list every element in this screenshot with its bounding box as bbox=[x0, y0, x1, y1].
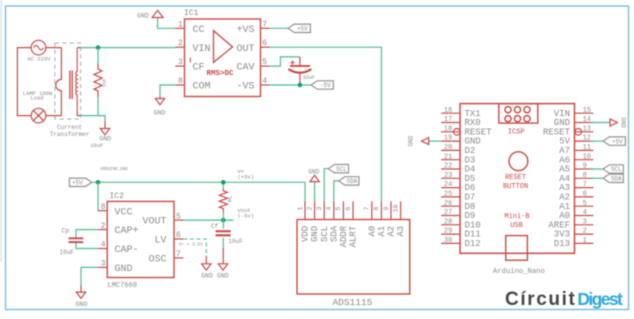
svg-text:AC 220V: AC 220V bbox=[27, 56, 51, 63]
wire + net flag SDA (nano A4) bbox=[590, 177, 603, 179]
svg-text:A3: A3 bbox=[396, 226, 406, 237]
wire + supply flag +5V (nano 5V) bbox=[590, 140, 603, 142]
svg-text:GND: GND bbox=[217, 273, 229, 280]
inversion bubble pin13 RESET bbox=[575, 129, 582, 136]
svg-text:IC2: IC2 bbox=[110, 192, 125, 201]
ADS1115 pin 3 SCL bbox=[323, 201, 325, 219]
svg-text:3: 3 bbox=[583, 218, 587, 226]
svg-text:VIN: VIN bbox=[193, 44, 211, 55]
nano pin 8 A4 bbox=[575, 177, 594, 179]
svg-text:9: 9 bbox=[583, 163, 587, 171]
ADC U2: ADS1115 bbox=[297, 220, 410, 309]
ground (Cf) bbox=[218, 264, 227, 270]
ground arrow (nano pin19 GND, left) bbox=[408, 135, 442, 146]
svg-text:5: 5 bbox=[335, 206, 342, 210]
svg-text:+5V: +5V bbox=[612, 138, 623, 145]
svg-text:SCL: SCL bbox=[611, 166, 622, 173]
svg-text:10: 10 bbox=[392, 205, 399, 213]
svg-text:Current: Current bbox=[57, 124, 82, 131]
svg-text:23: 23 bbox=[444, 172, 452, 180]
junction: secondary/resistor/VIN bbox=[96, 45, 101, 50]
svg-text:6: 6 bbox=[176, 231, 181, 240]
nano pin 30 D12 bbox=[441, 242, 460, 244]
svg-text:RL: RL bbox=[227, 195, 234, 202]
IC2 pin 8 VCC bbox=[98, 210, 107, 212]
svg-text:7: 7 bbox=[176, 250, 181, 259]
svg-text:CírcuitDigest: CírcuitDigest bbox=[505, 289, 623, 310]
svg-text:3: 3 bbox=[178, 58, 183, 67]
junction V+ / RL bbox=[221, 180, 226, 185]
lamp LAMP 100W load bbox=[23, 90, 53, 123]
IC1 pin 3 CF bbox=[175, 65, 184, 67]
svg-text:19: 19 bbox=[444, 135, 452, 143]
svg-text:2: 2 bbox=[101, 222, 106, 231]
svg-text:D13: D13 bbox=[554, 239, 570, 249]
wire: secondary bottom bbox=[81, 116, 105, 121]
svg-text:8: 8 bbox=[178, 77, 183, 86]
dashed wire: IC2 LV to ground bbox=[183, 239, 206, 256]
current transformer bbox=[50, 43, 90, 138]
svg-text:CAV: CAV bbox=[236, 63, 254, 74]
svg-text:OSC: OSC bbox=[148, 255, 166, 266]
nano pin 11 A7 bbox=[575, 149, 594, 151]
svg-text:CAP+: CAP+ bbox=[115, 226, 139, 237]
svg-text:6: 6 bbox=[345, 206, 352, 210]
IC2 pin 6 LV bbox=[174, 238, 183, 240]
svg-text:4: 4 bbox=[583, 209, 587, 217]
svg-text:OUT: OUT bbox=[236, 44, 254, 55]
svg-text:20: 20 bbox=[444, 144, 452, 152]
nano pin 2 3V3 bbox=[575, 233, 594, 235]
svg-text:VCC: VCC bbox=[115, 207, 133, 218]
svg-text:-VS: -VS bbox=[236, 82, 254, 93]
nano pin 1 D13 bbox=[575, 242, 594, 244]
wire + net flag SDA (ADS1115) bbox=[334, 181, 339, 201]
reset button bbox=[503, 152, 528, 191]
svg-text:4: 4 bbox=[326, 206, 333, 210]
nano pin 5 A1 bbox=[575, 205, 594, 207]
svg-text:2: 2 bbox=[583, 228, 587, 236]
svg-text:5: 5 bbox=[583, 200, 587, 208]
wire + net flag SCL (ADS1115) bbox=[324, 169, 328, 202]
resistor 150 (burden) bbox=[94, 48, 107, 116]
svg-text:CF: CF bbox=[193, 63, 205, 74]
svg-text:COM: COM bbox=[193, 82, 211, 93]
ground (LV) bbox=[202, 264, 211, 270]
svg-text:ADDR: ADDR bbox=[339, 225, 349, 247]
svg-text:9: 9 bbox=[383, 206, 390, 210]
svg-text:7: 7 bbox=[583, 181, 587, 189]
svg-text:10uF: 10uF bbox=[228, 238, 243, 245]
AC source AC 220V bbox=[27, 40, 51, 62]
svg-text:1: 1 bbox=[583, 237, 587, 245]
svg-text:A0: A0 bbox=[367, 226, 377, 237]
svg-text:5: 5 bbox=[176, 212, 181, 221]
svg-text:10uF: 10uF bbox=[90, 142, 103, 149]
ADS1115 pin 7 A0 bbox=[371, 201, 373, 219]
svg-text:SCL: SCL bbox=[336, 166, 347, 173]
svg-text:12: 12 bbox=[583, 135, 591, 143]
svg-text:15: 15 bbox=[583, 107, 591, 115]
svg-text:Transformer: Transformer bbox=[50, 131, 90, 138]
svg-text:Cf: Cf bbox=[211, 223, 219, 230]
wire: secondary top to VIN bbox=[81, 47, 176, 49]
svg-text:(-5v): (-5v) bbox=[238, 213, 255, 220]
nano pin 4 A0 bbox=[575, 215, 594, 217]
nano pin 22 D4 bbox=[441, 168, 460, 170]
svg-text:ARDUINO_GND: ARDUINO_GND bbox=[100, 168, 128, 172]
svg-text:10: 10 bbox=[583, 153, 591, 161]
svg-text:10uF: 10uF bbox=[60, 249, 75, 256]
svg-text:ADS1115: ADS1115 bbox=[332, 297, 372, 308]
svg-text:4: 4 bbox=[262, 77, 267, 86]
ADS1115 pin 8 A1 bbox=[380, 201, 382, 219]
svg-text:GND: GND bbox=[76, 301, 88, 308]
ground (IC1 CC pin1) bbox=[137, 10, 175, 28]
svg-text:26: 26 bbox=[444, 200, 452, 208]
ADS1115 pin 5 ADDR bbox=[342, 201, 344, 219]
capacitor Cp 10uF bbox=[60, 228, 98, 257]
nano pin 13 RESET bbox=[575, 131, 594, 133]
svg-text:7: 7 bbox=[364, 206, 371, 210]
svg-text:14: 14 bbox=[583, 116, 591, 124]
ICSP header bbox=[499, 104, 538, 137]
svg-text:-5V: -5V bbox=[320, 82, 331, 89]
svg-text:+5V: +5V bbox=[72, 180, 83, 187]
svg-text:RESET: RESET bbox=[505, 174, 526, 182]
IC1 pin 1 CC bbox=[175, 27, 184, 29]
svg-text:3: 3 bbox=[101, 260, 106, 269]
svg-text:A1: A1 bbox=[377, 226, 387, 237]
svg-text:SDA: SDA bbox=[611, 176, 622, 183]
svg-text:(+5v): (+5v) bbox=[238, 174, 255, 181]
svg-text:1: 1 bbox=[178, 20, 183, 29]
nano pin 24 D6 bbox=[441, 187, 460, 189]
IC2 LMC7660 voltage converter bbox=[107, 192, 174, 290]
wire + net flag SCL (nano A5) bbox=[590, 168, 603, 170]
op-amp U1: IC1 RMS-to-DC converter bbox=[184, 9, 261, 97]
svg-text:6: 6 bbox=[583, 191, 587, 199]
svg-text:LMC7660: LMC7660 bbox=[108, 282, 137, 290]
ground arrow (nano pin14 GND, right) bbox=[590, 117, 626, 128]
svg-text:3: 3 bbox=[316, 206, 323, 210]
svg-text:8: 8 bbox=[583, 172, 587, 180]
svg-text:25: 25 bbox=[444, 191, 452, 199]
svg-text:30: 30 bbox=[444, 237, 452, 245]
svg-text:GND: GND bbox=[310, 226, 320, 242]
ground (ADS1115 GND pin2) bbox=[308, 169, 319, 202]
nano pin 23 D5 bbox=[441, 177, 460, 179]
svg-text:V+ ≈ 3.5V: V+ ≈ 3.5V bbox=[179, 241, 204, 247]
IC2 pin 4 CAP- bbox=[98, 248, 107, 250]
svg-text:16: 16 bbox=[444, 107, 452, 115]
ADS1115 pin 10 A3 bbox=[400, 201, 402, 219]
svg-text:RMS>DC: RMS>DC bbox=[207, 70, 235, 78]
ground under transformer bbox=[90, 121, 111, 149]
svg-text:SCL: SCL bbox=[320, 226, 330, 242]
wire: V+ down to IC2 VCC bbox=[97, 182, 99, 210]
nano pin 7 A3 bbox=[575, 187, 594, 189]
nano pin 27 D9 bbox=[441, 215, 460, 217]
svg-text:150: 150 bbox=[101, 79, 107, 87]
svg-text:1: 1 bbox=[297, 206, 304, 210]
ADS1115 pin 2 GND bbox=[314, 201, 316, 219]
svg-text:IC1: IC1 bbox=[184, 9, 199, 18]
nano pin 9 A5 bbox=[575, 168, 594, 170]
svg-text:17: 17 bbox=[444, 116, 452, 124]
inverted-pin tick on CF bbox=[189, 58, 191, 63]
junction Vout bbox=[221, 218, 226, 223]
ground (IC1 COM pin8) bbox=[154, 85, 176, 117]
svg-text:11: 11 bbox=[583, 144, 591, 152]
svg-text:GND: GND bbox=[137, 12, 149, 19]
wire: V+ rail to ADS1115 VDD bbox=[92, 182, 305, 201]
svg-text:2: 2 bbox=[306, 206, 313, 210]
nano pin 12 5V bbox=[575, 140, 594, 142]
svg-text:GND: GND bbox=[201, 273, 213, 280]
svg-text:4: 4 bbox=[101, 241, 106, 250]
nano pin 18 RESET bbox=[441, 131, 460, 133]
wire + supply flag +5V (IC1 pin7) bbox=[270, 27, 288, 29]
nano pin 16 TX1 bbox=[441, 112, 460, 114]
svg-text:5: 5 bbox=[262, 58, 267, 67]
supply flag -5V bbox=[311, 81, 333, 89]
svg-text:VDD: VDD bbox=[301, 226, 311, 242]
nano pin 29 D11 bbox=[441, 233, 460, 235]
svg-text:Arduino_Nano: Arduino_Nano bbox=[493, 268, 545, 276]
ADS1115 pin 6 ALRT bbox=[352, 201, 354, 219]
svg-text:A2: A2 bbox=[387, 226, 397, 237]
svg-text:GND: GND bbox=[408, 135, 415, 146]
capacitor 33uF (polarized) bbox=[288, 57, 314, 85]
nano pin 26 D8 bbox=[441, 205, 460, 207]
svg-text:USB: USB bbox=[510, 222, 523, 230]
Arduino Nano U3 bbox=[460, 104, 575, 276]
svg-text:22: 22 bbox=[444, 163, 452, 171]
wire: IC1 CAV to capacitor bbox=[270, 57, 300, 66]
capacitor Cf 10uF bbox=[211, 220, 243, 264]
svg-text:18: 18 bbox=[444, 125, 452, 133]
svg-text:8: 8 bbox=[101, 203, 106, 212]
IC1 pin 8 COM bbox=[175, 84, 184, 86]
svg-text:ICSP: ICSP bbox=[508, 129, 525, 137]
nano pin 17 RX0 bbox=[441, 122, 460, 124]
IC2 pin 7 OSC bbox=[174, 257, 183, 259]
wire + junction (IC1 -VS) bbox=[270, 84, 311, 86]
IC1 pin 6 OUT bbox=[261, 46, 270, 48]
ADS1115 pin 9 A2 bbox=[390, 201, 392, 219]
ADS1115 pin 1 VDD bbox=[304, 201, 306, 219]
svg-text:SDA: SDA bbox=[346, 178, 357, 185]
svg-text:CC: CC bbox=[193, 25, 205, 36]
IC2 pin 2 CAP+ bbox=[98, 229, 107, 231]
svg-text:GND: GND bbox=[619, 117, 626, 128]
svg-text:Load: Load bbox=[30, 95, 43, 102]
svg-text:BUTTON: BUTTON bbox=[503, 183, 528, 191]
svg-text:Cp: Cp bbox=[62, 228, 70, 235]
nano pin 6 A2 bbox=[575, 196, 594, 198]
svg-text:Mini-B: Mini-B bbox=[504, 213, 529, 221]
Mini-B USB connector bbox=[504, 213, 529, 260]
nano pin 14 GND bbox=[575, 122, 594, 124]
ground (IC2 GND pin3) bbox=[76, 267, 98, 307]
svg-text:13: 13 bbox=[583, 125, 591, 133]
svg-text:D12: D12 bbox=[465, 239, 481, 249]
IC2 pin 5 VOUT bbox=[174, 219, 183, 221]
IC1 pin 5 CAV bbox=[261, 65, 270, 67]
svg-text:27: 27 bbox=[444, 209, 452, 217]
svg-text:CAP-: CAP- bbox=[115, 245, 139, 256]
svg-text:+VS: +VS bbox=[236, 25, 254, 36]
wire: IC2 VOUT to Vout node bbox=[183, 219, 233, 221]
svg-text:28: 28 bbox=[444, 218, 452, 226]
svg-text:7: 7 bbox=[262, 20, 267, 29]
svg-text:GND: GND bbox=[154, 110, 166, 117]
svg-text:6: 6 bbox=[262, 39, 267, 48]
nano pin 15 VIN bbox=[575, 112, 594, 114]
IC1 pin 4 -VS bbox=[261, 84, 270, 86]
resistor RL bbox=[219, 182, 233, 220]
svg-text:8: 8 bbox=[373, 206, 380, 210]
inversion bubble pin18 RESET bbox=[454, 129, 461, 136]
nano pin 3 AREF bbox=[575, 224, 594, 226]
wire: IC1 OUT to ADS1115 A1 bbox=[270, 47, 382, 201]
svg-text:21: 21 bbox=[444, 153, 452, 161]
ADS1115 pin 4 SDA bbox=[333, 201, 335, 219]
svg-text:SDA: SDA bbox=[329, 225, 339, 242]
wire loop: source-lamp-primary bbox=[17, 48, 61, 116]
supply flag +5V (V+ rail, points right) bbox=[69, 178, 91, 186]
IC1 pin 7 +VS bbox=[261, 27, 270, 29]
svg-text:ALRT: ALRT bbox=[349, 225, 359, 247]
nano pin 28 D10 bbox=[441, 224, 460, 226]
nano pin 19 GND bbox=[441, 140, 460, 142]
IC2 pin 3 GND bbox=[98, 266, 107, 268]
svg-text:VOUT: VOUT bbox=[142, 217, 166, 228]
svg-text:GND: GND bbox=[115, 264, 133, 275]
svg-text:29: 29 bbox=[444, 228, 452, 236]
nano pin 25 D7 bbox=[441, 196, 460, 198]
svg-text:LV: LV bbox=[154, 236, 166, 247]
svg-text:33uF: 33uF bbox=[303, 75, 315, 81]
IC1 pin 2 VIN bbox=[175, 46, 184, 48]
nano pin 21 D3 bbox=[441, 159, 460, 161]
junction V+ / IC2 VCC bbox=[96, 180, 101, 185]
svg-text:2: 2 bbox=[178, 39, 183, 48]
nano pin 20 D2 bbox=[441, 149, 460, 151]
svg-text:+5V: +5V bbox=[297, 26, 308, 33]
svg-text:GND: GND bbox=[308, 169, 319, 176]
nano pin 10 A6 bbox=[575, 159, 594, 161]
svg-text:24: 24 bbox=[444, 181, 452, 189]
